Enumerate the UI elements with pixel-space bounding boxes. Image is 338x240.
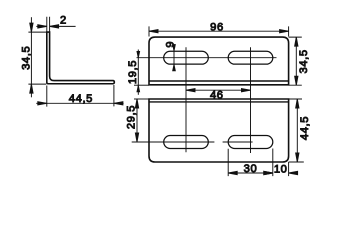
dim 44,5 : dimension line (36, 102, 123, 104)
dim 19,5 : arrow bottom (outside, points up) (137, 86, 140, 92)
svg-text:44,5: 44,5 (299, 116, 311, 140)
dim 2 : dimension line (36, 25, 75, 27)
dim 34,5 left : arrow top (points down) (30, 23, 33, 32)
L-profile outline (47, 32, 115, 84)
svg-text:96: 96 (210, 21, 224, 33)
vertical centerline slot A (runs through both views) (185, 47, 187, 152)
slot 1 bottom view (164, 136, 209, 149)
svg-text:29,5: 29,5 (126, 105, 138, 129)
bottom plate outline (149, 99, 289, 162)
front plate inner edge line (149, 80, 289, 82)
dim 44,5 right : extension lines (289, 99, 304, 162)
dim 96 : arrow right (points right) (280, 30, 289, 33)
dim 9 : dimension line (173, 44, 175, 70)
dim 10 : arrow left (points right) (264, 171, 273, 174)
slot 2 horizontal centerline (223, 141, 253, 143)
dim 29,5 : dimension line (136, 99, 138, 142)
dim 10 : right extension line (288, 162, 290, 176)
horizontal centerline front slots (137, 57, 277, 59)
front plate outline (149, 37, 289, 85)
dim 96 : dimension line (149, 30, 289, 32)
dim 30 : arrow right (points right) (264, 171, 273, 174)
dim 2 : extension lines (47, 17, 50, 32)
dim 29,5 : arrow bottom (points down) (135, 133, 138, 142)
dim 44,5 right : dimension line (296, 99, 298, 162)
dim 44,5 : extension lines (47, 85, 114, 107)
dim 29,5 : arrow top (points up) (135, 99, 138, 108)
dim 34,5 right : extension lines (289, 37, 302, 85)
svg-text:44,5: 44,5 (69, 93, 93, 105)
dim 34,5 left : dimension line (30, 17, 32, 97)
dim 34,5 right : arrow top (points up) (295, 37, 298, 46)
svg-text:2: 2 (60, 15, 67, 27)
dim 34,5 left : extension lines (28, 32, 46, 84)
dim 30 : extension lines (228, 149, 273, 177)
dim 96 : extension lines (149, 26, 289, 36)
vertical centerline slot B (runs through both views) (250, 47, 252, 153)
dim 29,5 : top extension line (134, 98, 149, 100)
slot A front (164, 51, 209, 64)
slot B front (228, 51, 273, 64)
dim 30 : arrow left (points left) (228, 171, 237, 174)
dim 44,5 right : arrow bottom (points down) (296, 153, 299, 162)
svg-text:9: 9 (165, 41, 177, 48)
slot 1 horizontal centerline (132, 141, 215, 143)
dim 46 : arrow right (points right) (242, 89, 251, 92)
dim 44,5 : arrow right (points left) (114, 102, 123, 105)
svg-text:30: 30 (244, 163, 258, 175)
svg-text:10: 10 (274, 163, 288, 175)
bottom plate bend line (149, 101, 289, 103)
dim 10 : dimension line segments (263, 172, 299, 174)
slot 2 bottom view (228, 136, 273, 149)
dim 19,5 : arrow top (outside, points down) (137, 52, 140, 58)
svg-text:46: 46 (210, 89, 224, 101)
dim 2 : arrow right (points left) (50, 25, 59, 28)
dim 46 : dimension line (186, 89, 251, 91)
dim 34,5 right : dimension line (295, 37, 297, 85)
dim 34,5 left : arrow bottom (points up) (30, 84, 33, 93)
svg-text:34,5: 34,5 (21, 46, 33, 70)
dim 19,5 : bottom extension line (134, 84, 149, 86)
dim 46 : arrow left (points left) (186, 89, 195, 92)
dim 10 : arrow right (points left) (289, 171, 298, 174)
dim 19,5 : dimension line (137, 50, 139, 95)
dim 30 : dimension line (228, 172, 273, 174)
dim 44,5 right : arrow top (points up) (296, 99, 299, 108)
dim 44,5 : arrow left (points right) (38, 102, 47, 105)
dim 96 : arrow left (points left) (149, 30, 158, 33)
dim 9 : arrow bottom (points up) (173, 65, 176, 71)
dim 34,5 right : arrow bottom (points down) (295, 76, 298, 85)
dim 2 : arrow left (points right) (38, 25, 47, 28)
dim 9 : arrow top (points down) (173, 45, 176, 51)
svg-text:19,5: 19,5 (127, 60, 139, 84)
svg-text:34,5: 34,5 (298, 49, 310, 73)
